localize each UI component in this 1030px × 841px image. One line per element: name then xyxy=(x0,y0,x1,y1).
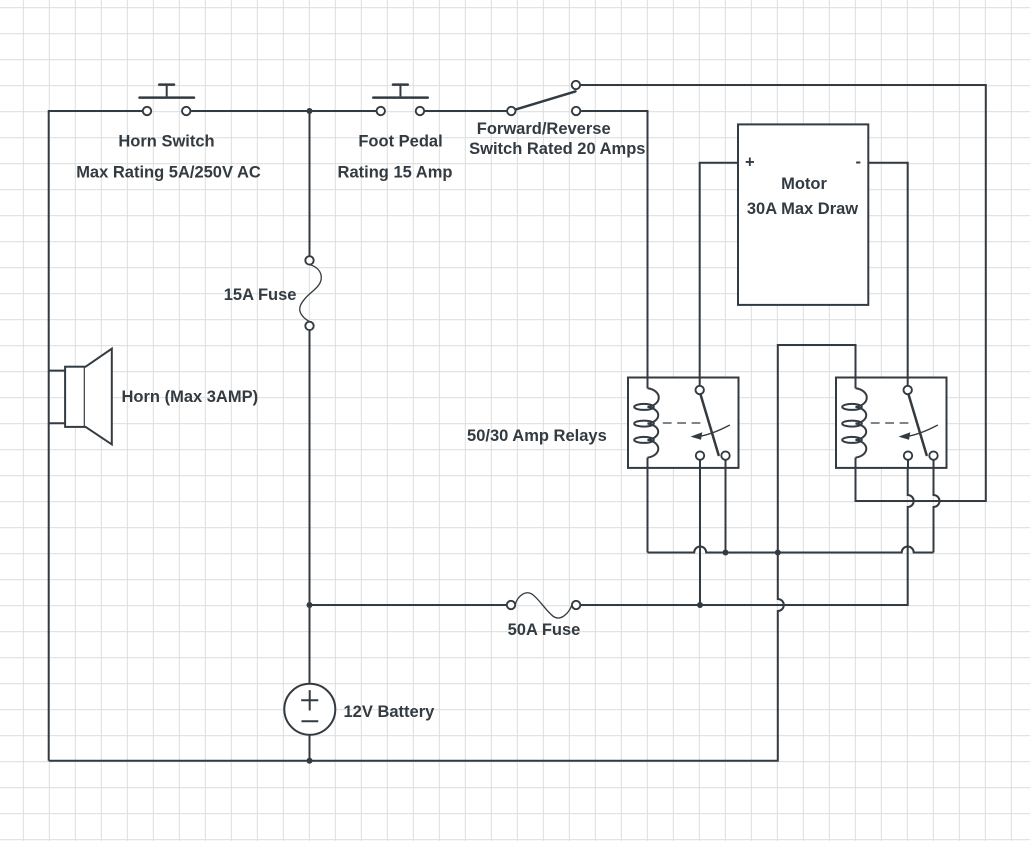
fuse F1 15A element xyxy=(300,265,322,322)
svg-text:15A Fuse: 15A Fuse xyxy=(224,286,297,304)
pushbutton horn switch xyxy=(140,85,195,116)
node: junction battery branch and 50A line xyxy=(307,602,313,608)
svg-text:Horn Switch: Horn Switch xyxy=(118,133,214,151)
wire: relay K2 bottom-left contact down to 50A line corner with hop xyxy=(580,468,913,605)
wire: battery bottom to bottom wire xyxy=(309,735,311,761)
wire: top junction down to 15A fuse xyxy=(309,111,311,256)
svg-text:Rating 15 Amp: Rating 15 Amp xyxy=(338,164,453,182)
fuse F2 50A left terminal xyxy=(507,601,515,609)
battery BT1 body xyxy=(284,684,335,735)
svg-text:30A Max Draw: 30A Max Draw xyxy=(747,200,858,218)
svg-text:-: - xyxy=(856,153,862,171)
horn speaker stub wires xyxy=(49,371,65,424)
wire: motor minus to relay K2 common xyxy=(868,163,907,378)
svg-text:Max Rating 5A/250V AC: Max Rating 5A/250V AC xyxy=(76,164,261,182)
svg-text:Forward/Reverse: Forward/Reverse xyxy=(477,120,611,138)
battery plus sign xyxy=(301,690,318,710)
wire: foot pedal to forward/reverse switch xyxy=(424,110,507,112)
wire: 50A junction down to battery top xyxy=(309,605,311,684)
fuse F1 15A top terminal xyxy=(305,256,313,264)
svg-text:Switch Rated 20 Amps: Switch Rated 20 Amps xyxy=(469,140,645,158)
relay K1 xyxy=(628,378,739,468)
svg-text:+: + xyxy=(745,154,755,172)
node: junction top wire to 15A fuse branch xyxy=(307,108,313,114)
wire: 50A line left segment to battery branch xyxy=(310,604,507,606)
wire: control rail with hops over two verticals xyxy=(648,547,934,553)
wire: 15A fuse down to 50A junction xyxy=(309,330,311,605)
wire: relay K2 coil top loop over to vertical 778 xyxy=(778,345,856,553)
pushbutton foot pedal xyxy=(373,85,428,116)
svg-text:50/30 Amp Relays: 50/30 Amp Relays xyxy=(467,427,607,445)
switch forward/reverse SPDT lever xyxy=(515,91,575,109)
svg-text:50A Fuse: 50A Fuse xyxy=(508,621,581,639)
svg-text:Foot Pedal: Foot Pedal xyxy=(358,133,442,151)
horn speaker body xyxy=(65,367,85,427)
wire: left rail from bottom wire up to top wire xyxy=(49,111,143,761)
node: junction K1 bottom-left contact and 50A line xyxy=(697,602,703,608)
svg-text:12V Battery: 12V Battery xyxy=(344,703,436,721)
wire: vertical 778 down with hop over 50A line, corner into bottom wire xyxy=(49,553,784,761)
wire: control rail corner up to relay K2 NO contact with hop xyxy=(934,468,940,553)
wire: relay K1 bottom-left contact drop to 50A line xyxy=(699,468,701,605)
node: junction vertical 778 and control rail xyxy=(775,550,781,556)
switch forward/reverse common contact xyxy=(507,107,515,115)
battery minus sign xyxy=(302,720,319,722)
horn speaker cone xyxy=(85,349,112,445)
switch forward/reverse upper throw contact xyxy=(572,81,580,89)
wire: horn switch to foot pedal xyxy=(190,110,377,112)
wire: lower throw to relay K1 coil top xyxy=(580,111,647,378)
svg-text:Horn (Max 3AMP): Horn (Max 3AMP) xyxy=(122,388,259,406)
fuse F1 15A bottom terminal xyxy=(305,322,313,330)
node: junction battery negative and bottom wire xyxy=(307,758,313,764)
wire: relay K1 coil bottom down to control rail xyxy=(647,468,649,553)
svg-text:Motor: Motor xyxy=(781,175,827,193)
fuse F2 50A element xyxy=(515,593,572,618)
relay K2 xyxy=(836,378,947,468)
wire: motor plus to relay K1 common xyxy=(700,163,738,378)
wire: relay K1 NO contact drop to control rail xyxy=(725,468,727,553)
fuse F2 50A right terminal xyxy=(572,601,580,609)
wire: upper throw right along top, down right side, to relay K2 coil bottom xyxy=(580,85,986,501)
node: junction K1 NO contact and control rail xyxy=(723,550,729,556)
motor box M1 xyxy=(738,124,868,305)
switch forward/reverse lower throw contact xyxy=(572,107,580,115)
